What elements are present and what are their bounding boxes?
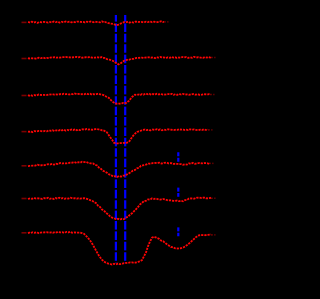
leading dash of spectrum 7 (22, 232, 27, 234)
leading dash of spectrum 6 (22, 198, 27, 200)
blue dashed vertical line left (x=116) (115, 15, 117, 263)
leading dash of spectrum 2 (22, 58, 27, 60)
leading dash of spectrum 1 (22, 21, 27, 23)
leading dash of spectrum 5 (22, 165, 27, 167)
faint tail of spectrum 6 (211, 197, 216, 199)
faint tail of spectrum 2 (211, 57, 216, 59)
red dotted spectrum curve 7 (28, 232, 211, 265)
faint tail of spectrum 3 (210, 94, 215, 96)
stacked spectra figure on black background (0, 0, 224, 294)
faint tail of spectrum 5 (209, 162, 214, 164)
blue dashed marker tick for spectrum 7 (x=178) (177, 227, 179, 236)
leading dash of spectrum 3 (22, 95, 27, 97)
leading dash of spectrum 4 (22, 131, 27, 133)
faint tail of spectrum 1 (164, 21, 169, 23)
blue dashed marker tick for spectrum 5 (x=178) (177, 152, 179, 162)
blue dashed marker tick for spectrum 6 (x=178) (177, 188, 179, 197)
red dotted spectrum curve 4 (28, 129, 208, 144)
red dotted spectrum curve 6 (28, 198, 211, 220)
red dotted spectrum curve 5 (28, 162, 209, 177)
faint tail of spectrum 7 (211, 234, 216, 236)
blue dashed vertical line right (x=125) (124, 15, 126, 263)
red dotted spectrum curve 1 (28, 21, 164, 25)
red dotted spectrum curve 3 (28, 94, 210, 104)
faint tail of spectrum 4 (208, 129, 213, 131)
red dotted spectrum curve 2 (28, 57, 211, 65)
